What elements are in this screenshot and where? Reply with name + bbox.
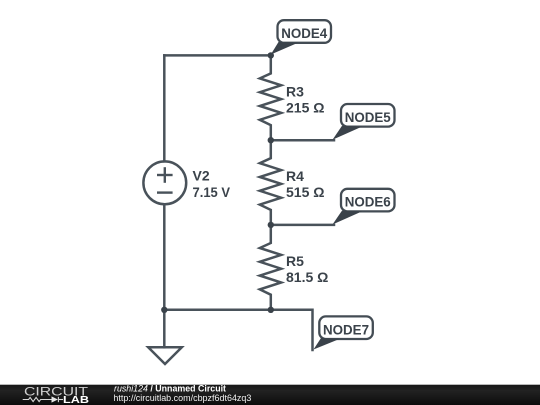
svg-text:NODE7: NODE7	[323, 321, 369, 337]
svg-text:http://circuitlab.com/cbpzf6dt: http://circuitlab.com/cbpzf6dt64zq3	[113, 393, 251, 403]
svg-text:NODE4: NODE4	[281, 25, 327, 41]
svg-text:R5: R5	[286, 253, 304, 269]
svg-text:7.15 V: 7.15 V	[193, 184, 231, 200]
svg-text:NODE5: NODE5	[345, 109, 391, 125]
svg-text:R3: R3	[286, 83, 304, 99]
svg-text:LAB: LAB	[63, 395, 89, 405]
svg-text:81.5 Ω: 81.5 Ω	[286, 269, 328, 285]
svg-text:R4: R4	[286, 168, 304, 184]
svg-text:215 Ω: 215 Ω	[286, 99, 324, 115]
svg-text:515 Ω: 515 Ω	[286, 184, 324, 200]
svg-text:V2: V2	[193, 167, 210, 183]
svg-text:NODE6: NODE6	[345, 194, 391, 210]
